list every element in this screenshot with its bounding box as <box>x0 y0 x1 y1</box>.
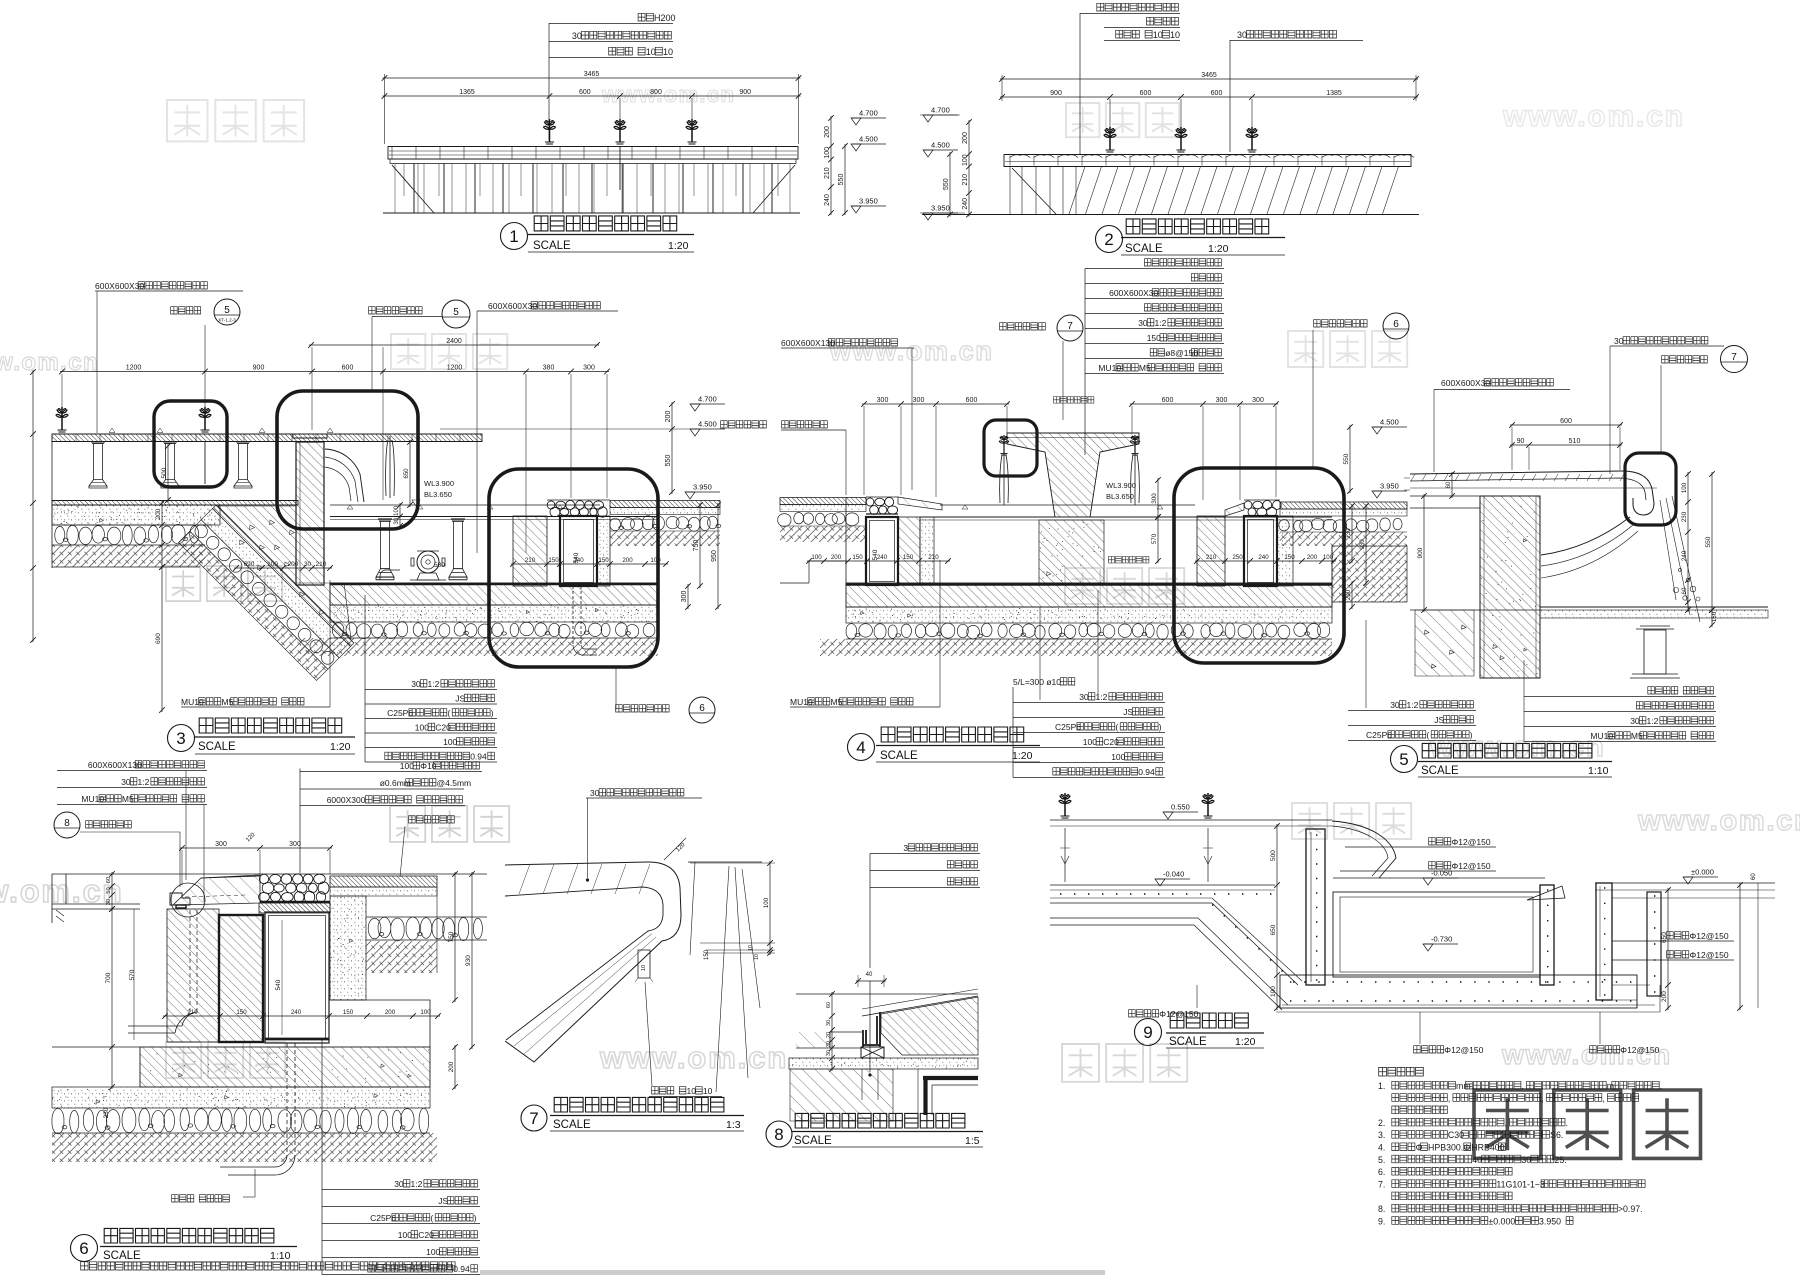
svg-text:100: 100 <box>267 561 278 568</box>
svg-text:SCALE: SCALE <box>1169 1036 1207 1048</box>
svg-text:MU10: MU10 <box>81 794 104 804</box>
svg-text:100: 100 <box>400 761 414 771</box>
d2 cladding diagonal joints <box>1069 167 1399 215</box>
svg-text:30: 30 <box>826 1050 832 1056</box>
d4 callout small rounded <box>984 420 1037 476</box>
d2 title text <box>1126 219 1269 234</box>
d3 right coping pebble pocket <box>547 501 607 518</box>
d1 left slope edge <box>392 165 434 213</box>
d3 under-floor layers left: concrete <box>52 505 220 525</box>
d8 leader <box>869 854 871 969</box>
d9 right coping slope <box>1527 886 1565 900</box>
d4 left step below <box>780 561 846 583</box>
d3 right dim chain 200/550 <box>671 402 673 494</box>
d3 backfill hatch wedge <box>218 506 351 639</box>
svg-text:C25P6: C25P6 <box>370 1213 396 1223</box>
svg-text:200: 200 <box>622 557 633 564</box>
svg-text:200: 200 <box>1345 589 1352 600</box>
svg-text:ø0.6mm: ø0.6mm <box>380 778 411 788</box>
d3 right pavement layers <box>610 501 720 508</box>
svg-text:3.950: 3.950 <box>859 197 878 206</box>
svg-text:Φ12@150: Φ12@150 <box>1690 950 1729 960</box>
d5 left pavement cut <box>1404 478 1410 490</box>
svg-text:3.950: 3.950 <box>931 204 950 213</box>
svg-text:10: 10 <box>687 1086 697 1096</box>
d4 bubble 6 <box>1383 313 1409 339</box>
svg-text:900: 900 <box>1050 90 1062 97</box>
d1 right dim 550 <box>844 144 846 215</box>
d2 leader line 2 <box>1229 40 1231 152</box>
d3 right wall channel <box>560 516 597 586</box>
svg-text:5: 5 <box>1399 750 1408 769</box>
d4 right coping slope <box>1225 503 1244 516</box>
svg-text:10: 10 <box>663 47 673 57</box>
d4 dim row left <box>862 403 1009 405</box>
svg-text:300: 300 <box>877 397 889 404</box>
d6 label paving see plan <box>409 816 455 823</box>
svg-text:,: , <box>1505 1118 1507 1128</box>
svg-text:,: , <box>1541 1093 1543 1103</box>
d4 dims 730/930/200 <box>1351 504 1353 563</box>
d6 left wall hatch <box>167 909 219 1042</box>
svg-text:210: 210 <box>525 557 536 564</box>
d3 label enlarged section 2 ref <box>616 705 670 712</box>
svg-text:10: 10 <box>703 1086 713 1096</box>
svg-text:-0.040: -0.040 <box>1163 870 1184 879</box>
svg-text:600X600X30: 600X600X30 <box>1109 288 1158 298</box>
svg-text:C25P6: C25P6 <box>1366 730 1392 740</box>
svg-text:): ) <box>474 1213 477 1223</box>
svg-text:300: 300 <box>289 841 301 848</box>
d5 left dim 900 <box>1423 494 1425 612</box>
d2 dim row 900/600/600/1385 <box>1000 96 1418 98</box>
svg-text:6: 6 <box>1393 319 1399 330</box>
d9 pool rim line <box>1333 877 1545 879</box>
svg-text:930: 930 <box>1359 539 1366 550</box>
svg-text:SCALE: SCALE <box>880 750 918 762</box>
d3 far-left vertical dim chain <box>32 370 34 642</box>
svg-text:600X600X30: 600X600X30 <box>488 301 537 311</box>
d5 falling jet lines <box>1660 496 1700 622</box>
svg-text:SCALE: SCALE <box>198 741 236 753</box>
d9 outer blinding outline <box>1050 918 1288 1010</box>
d4 underslab concrete <box>846 607 1332 623</box>
d2 leader line 1 <box>1079 13 1081 154</box>
d5 dim 600 <box>1510 424 1622 426</box>
svg-text:100: 100 <box>1323 554 1334 561</box>
svg-text:600X600X30: 600X600X30 <box>95 281 144 291</box>
svg-text:4.700: 4.700 <box>859 109 878 118</box>
d1 extension lines to jets <box>619 98 621 122</box>
svg-text:8.: 8. <box>1378 1204 1385 1214</box>
d3 under-floor pebbles left <box>55 524 199 545</box>
svg-text:MU10: MU10 <box>181 697 204 707</box>
svg-text:30: 30 <box>1521 1155 1531 1165</box>
d6 under slab pebbles <box>52 1107 429 1133</box>
svg-text:1: 1 <box>509 227 518 246</box>
svg-text:C25P6: C25P6 <box>1055 722 1081 732</box>
svg-text:600: 600 <box>1211 90 1223 97</box>
d3 dims at wall 100/30 <box>399 503 401 528</box>
svg-text:200: 200 <box>831 554 842 561</box>
svg-text:240: 240 <box>1681 550 1688 561</box>
svg-text:240: 240 <box>291 1009 302 1016</box>
svg-text:3.950: 3.950 <box>1380 482 1399 491</box>
d4 sculpture jets <box>999 435 1009 455</box>
d9 jets on top <box>1059 793 1071 818</box>
svg-text:M5: M5 <box>122 794 134 804</box>
d4 dim rows at y561 <box>807 560 950 562</box>
d6 under slab concrete <box>52 1087 430 1108</box>
d7 stone hook inner <box>505 887 663 1040</box>
watermark om top-middle <box>1066 103 1179 137</box>
d5 bubble 7 <box>1721 346 1748 373</box>
d3 deck joints <box>76 434 460 442</box>
d6 title block circle 6 <box>71 1235 98 1262</box>
svg-text:30: 30 <box>394 1179 404 1189</box>
svg-text:60: 60 <box>106 877 112 883</box>
svg-text:600: 600 <box>1560 418 1572 425</box>
d7 right dims <box>690 862 775 864</box>
svg-text:10: 10 <box>1153 30 1163 40</box>
svg-text:BL3.650: BL3.650 <box>1106 492 1134 501</box>
d8 bottom-right membrane thick L <box>917 1069 919 1121</box>
svg-text:30: 30 <box>394 517 400 524</box>
svg-text:0.94: 0.94 <box>1138 767 1155 777</box>
d4 right wall assembly <box>1197 516 1225 586</box>
d5 dim 60 top <box>1451 472 1453 498</box>
svg-text:30: 30 <box>590 788 600 798</box>
svg-text:5: 5 <box>224 305 230 316</box>
svg-text:1:5: 1:5 <box>965 1135 980 1147</box>
svg-text:930: 930 <box>465 955 472 966</box>
d9 bottom slab <box>1280 975 1637 1008</box>
d4 bubble 7 <box>1057 315 1083 341</box>
svg-text:,: , <box>1521 1081 1523 1091</box>
svg-text:380: 380 <box>543 364 555 371</box>
svg-text:(: ( <box>1115 722 1118 732</box>
svg-text:600: 600 <box>579 89 591 96</box>
d3 leader sprayer <box>204 325 206 418</box>
d6 right dim chains <box>454 872 456 1002</box>
d8 top line <box>796 993 978 995</box>
svg-text:650: 650 <box>404 468 410 479</box>
d9 top wall elevation lines <box>1050 819 1332 821</box>
svg-text:600: 600 <box>342 364 354 371</box>
d7 title text <box>554 1097 724 1112</box>
svg-text:3465: 3465 <box>584 71 600 78</box>
svg-text:30: 30 <box>1614 336 1624 346</box>
d2 ground line <box>922 214 1419 216</box>
d1 jet2 pipe <box>619 146 621 190</box>
d3 basin pedestals <box>376 519 394 580</box>
svg-text:MU10: MU10 <box>1098 363 1121 373</box>
svg-text:240: 240 <box>877 554 888 561</box>
svg-text:600X600X130: 600X600X130 <box>88 760 142 770</box>
d3 pump suction pipe <box>380 570 400 580</box>
d4 central sculpture cap <box>1007 433 1139 517</box>
d4 label enlarged section2 ref <box>1314 320 1368 327</box>
svg-text:210: 210 <box>187 1009 198 1016</box>
svg-text:100: 100 <box>962 154 969 166</box>
structural notes title <box>1379 1067 1424 1076</box>
svg-text:100: 100 <box>1083 737 1097 747</box>
svg-text:200: 200 <box>665 411 672 423</box>
svg-text:200: 200 <box>448 1061 455 1072</box>
svg-text:C25P6: C25P6 <box>387 708 413 718</box>
svg-text:300: 300 <box>1216 397 1228 404</box>
d1 wall body vertical joints <box>395 164 790 214</box>
svg-text:SCALE: SCALE <box>1421 765 1459 777</box>
svg-text:30: 30 <box>411 679 421 689</box>
d2 fountain jets <box>1104 127 1116 152</box>
svg-text:7: 7 <box>529 1109 538 1128</box>
d6 stack leader <box>203 805 205 903</box>
svg-text:200: 200 <box>288 561 299 568</box>
svg-text:550: 550 <box>665 455 672 467</box>
svg-text:mm: mm <box>1456 1081 1471 1091</box>
d3 label paving see plan <box>721 421 767 428</box>
d3 pool left wall <box>296 442 324 585</box>
svg-text:,: , <box>1660 1081 1662 1091</box>
svg-text:550: 550 <box>1343 453 1350 464</box>
svg-text:150: 150 <box>236 1009 247 1016</box>
svg-text:690: 690 <box>244 561 255 568</box>
svg-text:SCALE: SCALE <box>103 1250 141 1262</box>
svg-text:210: 210 <box>962 174 969 186</box>
d3 jet2 drop pipe <box>204 442 206 484</box>
d4 water line <box>940 504 1195 506</box>
svg-text:0.550: 0.550 <box>1171 803 1190 812</box>
svg-text:1:20: 1:20 <box>1012 750 1033 762</box>
d4 left pebble pocket <box>866 498 897 515</box>
d4 label node enlarge ref <box>1000 323 1046 330</box>
d5 coping slab with nose <box>1410 471 1654 515</box>
d7 hook hatch <box>514 864 656 1055</box>
svg-text:www.om.cn: www.om.cn <box>1502 100 1685 133</box>
d4 wall left outline verticals <box>845 497 847 583</box>
svg-text:40: 40 <box>1472 1155 1482 1165</box>
svg-text:200: 200 <box>1307 554 1318 561</box>
d2 extension lines <box>1109 99 1111 128</box>
svg-text:±0.000: ±0.000 <box>1488 1216 1515 1226</box>
d1 fountain jet 3 <box>686 119 698 144</box>
svg-text:300: 300 <box>583 364 595 371</box>
svg-text:550: 550 <box>943 178 950 190</box>
svg-text:m: m <box>1607 1081 1614 1091</box>
d3 dim row right wall <box>511 563 668 565</box>
d7 water jet lines <box>690 862 760 1092</box>
svg-text:1:20: 1:20 <box>330 741 351 753</box>
svg-text:SCALE: SCALE <box>533 240 571 252</box>
svg-text:300: 300 <box>1252 397 1264 404</box>
svg-text:30: 30 <box>572 31 582 41</box>
svg-text:210: 210 <box>928 554 939 561</box>
svg-text:650: 650 <box>1661 932 1668 943</box>
d9 left pavement slab <box>1050 884 1275 886</box>
d5 left soil wedge <box>1415 610 1474 676</box>
d4 leader 130 granite <box>911 348 913 490</box>
d4 label paving see plan left <box>782 421 828 428</box>
svg-text:(: ( <box>447 708 450 718</box>
svg-text:150: 150 <box>704 949 710 960</box>
svg-text:900: 900 <box>1417 547 1424 558</box>
d6 title text <box>104 1228 274 1243</box>
svg-text:100: 100 <box>1270 986 1277 997</box>
d4 dim 550 right <box>1349 425 1351 493</box>
d6 top surface line <box>52 873 487 875</box>
svg-text:5/L=300 ø10: 5/L=300 ø10 <box>1013 677 1061 687</box>
d4 dim row right <box>1130 403 1278 405</box>
d8 stainless channel <box>863 1012 880 1047</box>
svg-text:MU10: MU10 <box>1590 731 1613 741</box>
d8 anchor box <box>861 1047 884 1058</box>
svg-text:1.: 1. <box>1378 1081 1385 1091</box>
svg-text:S6.: S6. <box>1550 1130 1563 1140</box>
svg-text:2: 2 <box>1104 230 1113 249</box>
svg-text:1:2: 1:2 <box>411 1179 423 1189</box>
svg-text:100: 100 <box>415 723 429 733</box>
d2 title block circle 2 <box>1096 226 1123 253</box>
svg-text:30: 30 <box>121 777 131 787</box>
d3 basin floor line <box>330 516 658 518</box>
d4 stack leader <box>1084 269 1086 456</box>
svg-text:200: 200 <box>824 126 831 138</box>
svg-text:690: 690 <box>155 633 162 644</box>
svg-text:1:10: 1:10 <box>270 1250 291 1262</box>
d3 drain pipe below channel <box>572 586 574 645</box>
d3 right wall dotted column <box>597 516 610 586</box>
svg-text:9: 9 <box>1143 1023 1152 1042</box>
svg-text:Φ12@150: Φ12@150 <box>1444 1045 1483 1055</box>
svg-text:500: 500 <box>1270 850 1277 861</box>
svg-text:±0.000: ±0.000 <box>1691 868 1714 877</box>
d6 dim row 300/300 <box>180 847 332 849</box>
svg-text:4.: 4. <box>1378 1143 1385 1153</box>
d3 deck water level marks <box>109 428 333 433</box>
d3 basin floor slab hatch <box>330 583 658 605</box>
svg-text:4.500: 4.500 <box>698 420 717 429</box>
svg-text:3.950: 3.950 <box>693 483 712 492</box>
svg-text:Φ12@150: Φ12@150 <box>1690 931 1729 941</box>
d6 lintel hatched band <box>259 903 330 913</box>
svg-text:210: 210 <box>824 167 831 179</box>
watermark om drawing3 bottom <box>166 566 282 601</box>
d1 right slope edge <box>753 165 795 213</box>
d3 left dim chain <box>161 501 163 569</box>
d3 leader bubble5 <box>371 317 373 392</box>
svg-text:,: , <box>1602 1093 1604 1103</box>
d3 dim row mid-left <box>234 567 332 569</box>
svg-text:250: 250 <box>1232 554 1243 561</box>
d3 basin jet <box>386 436 395 498</box>
svg-text:3465: 3465 <box>1201 72 1217 79</box>
svg-text:300: 300 <box>681 591 688 603</box>
svg-text:7.: 7. <box>1378 1179 1385 1189</box>
d6 right pavement layers <box>330 876 437 887</box>
svg-text:3.950: 3.950 <box>1539 1216 1561 1226</box>
svg-text:100: 100 <box>426 1247 440 1257</box>
svg-text:(: ( <box>1426 730 1429 740</box>
svg-text:3: 3 <box>176 729 185 748</box>
d5 title text <box>1422 743 1592 758</box>
svg-text:1200: 1200 <box>447 364 463 371</box>
d6 right step outline <box>330 1000 430 1047</box>
svg-text:.: . <box>1566 1118 1568 1128</box>
svg-text:90: 90 <box>1517 438 1525 445</box>
d8 pipe below <box>861 1069 863 1100</box>
svg-text:3: 3 <box>903 843 908 853</box>
svg-text:150: 150 <box>852 554 863 561</box>
d2 left dim chain <box>968 120 970 217</box>
d5 water drops <box>1673 568 1700 601</box>
d3 basin water line <box>330 504 600 506</box>
svg-text:210: 210 <box>316 561 327 568</box>
svg-text:600: 600 <box>966 397 978 404</box>
d6 mid dim row <box>163 1015 440 1017</box>
svg-text:www.om.cn: www.om.cn <box>829 336 993 366</box>
svg-text:JS: JS <box>1123 707 1133 717</box>
d6 left pool coping <box>52 874 140 923</box>
svg-text:30: 30 <box>826 1020 832 1026</box>
svg-text:,: , <box>1448 1093 1450 1103</box>
svg-text:600X600X130: 600X600X130 <box>781 338 835 348</box>
d4 right soil block <box>1332 546 1407 602</box>
svg-text:10: 10 <box>748 945 754 951</box>
svg-text:650: 650 <box>1270 924 1277 935</box>
d4 left wall channels <box>866 517 898 585</box>
svg-text:30: 30 <box>1630 716 1640 726</box>
svg-text:-0.050: -0.050 <box>1431 869 1452 878</box>
d5 pool floor right of wall <box>1540 606 1768 608</box>
d4 callout big rounded <box>1174 468 1344 663</box>
d4 right pavement layers <box>1280 502 1407 509</box>
svg-text:WL3.900: WL3.900 <box>1106 481 1136 490</box>
svg-text:4: 4 <box>856 738 865 757</box>
svg-text:30: 30 <box>304 561 312 568</box>
svg-text:600: 600 <box>1140 90 1152 97</box>
watermark om top-left <box>167 100 304 141</box>
svg-text:540: 540 <box>275 979 282 990</box>
d1 fountain jet 1 <box>544 119 556 144</box>
svg-text:240: 240 <box>573 557 584 564</box>
d3 bubble 6 <box>689 697 715 723</box>
svg-text:240: 240 <box>962 198 969 210</box>
svg-text:150: 150 <box>598 557 609 564</box>
svg-text:0.94: 0.94 <box>453 1264 470 1274</box>
svg-text:1:2: 1:2 <box>1407 700 1419 710</box>
svg-text:30: 30 <box>1390 700 1400 710</box>
d8 title block circle 8 <box>766 1121 792 1147</box>
svg-text:100: 100 <box>1111 752 1125 762</box>
svg-text:30: 30 <box>1237 30 1247 40</box>
d3 bubble 5 <box>442 300 470 328</box>
d6 drain pipe below <box>286 1043 288 1155</box>
svg-text:JS: JS <box>1434 715 1444 725</box>
watermark om left-mid <box>391 334 507 369</box>
d9 small wall near basin right <box>1540 885 1554 985</box>
d1 fountain jet 2 <box>614 119 626 144</box>
d3 excavation slope layered bands <box>213 505 355 647</box>
d3 callout rounded rect pedestal <box>154 401 227 487</box>
svg-text:30: 30 <box>106 899 112 905</box>
svg-text:1:3: 1:3 <box>726 1119 741 1131</box>
d5 embedded light pedestal <box>1636 626 1674 629</box>
svg-text:7: 7 <box>1731 352 1737 363</box>
svg-text:XT-1.2-3: XT-1.2-3 <box>218 318 236 323</box>
svg-text:4.700: 4.700 <box>698 395 717 404</box>
d1 dim 3465 <box>383 77 801 79</box>
